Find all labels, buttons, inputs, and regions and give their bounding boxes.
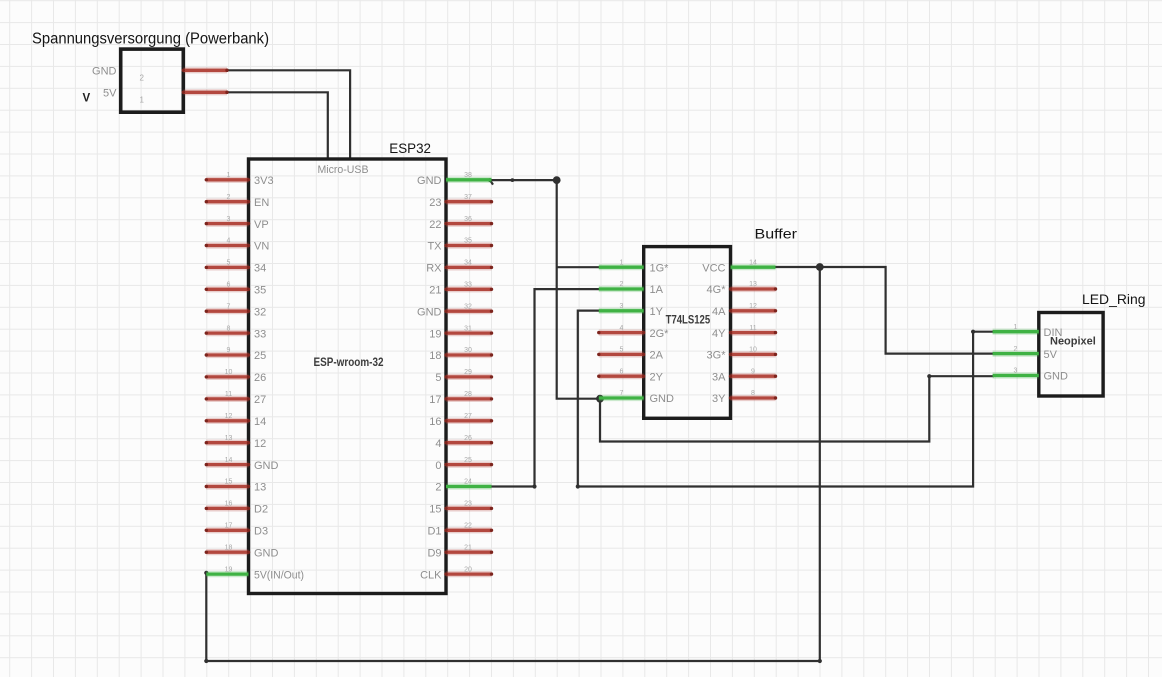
svg-text:GND: GND <box>254 547 279 559</box>
svg-text:6: 6 <box>620 368 624 375</box>
svg-text:RX: RX <box>426 263 442 275</box>
wire powerbank 5V to ESP32 Micro-USB <box>227 92 328 159</box>
svg-text:25: 25 <box>464 457 472 464</box>
wire net GND: buffer GND(7) to LED ring GND <box>600 376 994 441</box>
svg-text:4A: 4A <box>712 306 726 318</box>
svg-text:Micro-USB: Micro-USB <box>318 164 369 176</box>
svg-text:14: 14 <box>254 416 266 428</box>
svg-text:19: 19 <box>429 328 441 340</box>
svg-text:13: 13 <box>254 482 266 494</box>
ESP32 pin 15 13 <box>205 479 267 494</box>
svg-text:20: 20 <box>464 566 472 573</box>
svg-text:2: 2 <box>620 281 624 288</box>
svg-text:VP: VP <box>254 219 269 231</box>
svg-text:3: 3 <box>227 216 231 223</box>
svg-text:17: 17 <box>429 394 441 406</box>
svg-text:T74LS125: T74LS125 <box>666 312 711 326</box>
ESP32 pin 23 15 <box>429 501 493 516</box>
svg-text:11: 11 <box>749 325 756 332</box>
svg-text:4: 4 <box>620 325 624 332</box>
svg-text:GND: GND <box>417 175 442 187</box>
ESP32 pin 29 5 <box>435 369 493 384</box>
svg-text:18: 18 <box>225 544 233 551</box>
svg-text:33: 33 <box>254 328 266 340</box>
svg-text:21: 21 <box>464 544 472 551</box>
svg-text:16: 16 <box>225 501 233 508</box>
svg-text:29: 29 <box>464 369 472 376</box>
svg-text:0: 0 <box>435 460 441 472</box>
powerbank pin 2 GND <box>92 66 229 83</box>
svg-text:5V: 5V <box>103 88 117 100</box>
powerbank pin 1 5V <box>103 88 229 105</box>
svg-text:32: 32 <box>254 306 266 318</box>
svg-text:LED_Ring: LED_Ring <box>1082 292 1146 307</box>
bendpoint wire 1Y corner <box>576 484 580 488</box>
svg-text:2: 2 <box>1014 346 1018 353</box>
svg-text:34: 34 <box>464 260 472 267</box>
svg-text:GND: GND <box>92 66 117 78</box>
wire net out: buffer 1Y(3) to LED ring DIN <box>578 311 994 487</box>
svg-text:5V(IN/Out): 5V(IN/Out) <box>254 569 304 581</box>
svg-text:2G*: 2G* <box>650 328 670 340</box>
ESP32 pin 34 RX <box>426 260 493 275</box>
svg-text:TX: TX <box>427 241 442 253</box>
buffer pin 1 1G* <box>599 259 669 274</box>
wire net 5V: VCC junction down and to ESP32 5V(IN/Out) pin 19 <box>206 267 820 661</box>
LED ring pin 3 GND <box>993 368 1068 383</box>
svg-text:Spannungsversorgung (Powerbank: Spannungsversorgung (Powerbank) <box>32 31 269 48</box>
ESP32 pin 25 0 <box>435 457 493 472</box>
svg-text:14: 14 <box>749 259 757 266</box>
svg-text:4: 4 <box>227 238 231 245</box>
LED ring body <box>1039 313 1103 397</box>
powerbank body <box>121 49 184 112</box>
junction node GND at buffer GND pin 7 <box>596 395 604 403</box>
svg-text:1G*: 1G* <box>650 262 670 274</box>
ESP32 pin 14 GND <box>205 457 279 472</box>
svg-text:35: 35 <box>254 285 266 297</box>
svg-text:DIN: DIN <box>1044 327 1063 339</box>
svg-text:1Y: 1Y <box>650 306 664 318</box>
svg-text:12: 12 <box>225 413 233 420</box>
ESP32 pin 13 12 <box>205 435 267 450</box>
buffer pin 2 1A <box>599 281 664 296</box>
svg-text:VN: VN <box>254 241 269 253</box>
ESP32 pin 35 TX <box>427 238 493 253</box>
svg-text:31: 31 <box>464 325 472 332</box>
ESP32 pin 33 21 <box>429 282 493 297</box>
svg-text:15: 15 <box>225 479 233 486</box>
svg-text:9: 9 <box>751 368 755 375</box>
ESP32 pin 31 19 <box>429 325 493 340</box>
svg-text:5V: 5V <box>1044 349 1058 361</box>
svg-text:35: 35 <box>464 238 472 245</box>
svg-text:GND: GND <box>417 306 442 318</box>
buffer pin 5 2A <box>597 347 664 362</box>
junction node 5V at buffer VCC wire <box>816 263 824 271</box>
LED ring pin 1 DIN <box>993 324 1063 339</box>
svg-text:D1: D1 <box>427 526 441 538</box>
ESP32 pin 28 17 <box>429 391 493 406</box>
buffer pin 12 4A <box>712 303 777 318</box>
svg-text:27: 27 <box>464 413 472 420</box>
svg-text:8: 8 <box>227 325 231 332</box>
svg-text:26: 26 <box>464 435 472 442</box>
svg-text:37: 37 <box>464 194 472 201</box>
svg-text:14: 14 <box>225 457 233 464</box>
svg-text:ESP-wroom-32: ESP-wroom-32 <box>314 355 384 369</box>
ESP32 pin 4 VN <box>205 238 270 253</box>
wire end at powerbank GND pin <box>225 69 228 72</box>
ESP32 pin 18 GND <box>205 544 279 559</box>
svg-text:24: 24 <box>464 479 472 486</box>
svg-text:3: 3 <box>1014 368 1018 375</box>
svg-text:V: V <box>83 93 91 105</box>
svg-text:2A: 2A <box>650 350 664 362</box>
ESP32 pin 24 2 <box>435 479 491 494</box>
svg-text:34: 34 <box>254 263 266 275</box>
svg-text:2: 2 <box>140 74 145 83</box>
svg-text:Buffer: Buffer <box>755 227 798 242</box>
svg-text:8: 8 <box>751 390 755 397</box>
ESP32 pin 19 5V(IN/Out) <box>206 566 304 581</box>
wire net GND: ESP32 GND(38) to buffer 1G*, buffer GND(7) <box>490 180 600 399</box>
bendpoint on GND wire <box>511 178 515 182</box>
wire end at powerbank 5V pin <box>225 91 228 94</box>
ESP32 pin 12 14 <box>205 413 267 428</box>
svg-text:CLK: CLK <box>420 569 442 581</box>
svg-text:7: 7 <box>227 303 231 310</box>
buffer pin 14 VCC <box>702 259 775 274</box>
svg-text:6: 6 <box>227 282 231 289</box>
ESP32 pin 26 4 <box>435 435 493 450</box>
bendpoint wire DIN corner <box>971 330 975 334</box>
svg-text:2: 2 <box>227 194 231 201</box>
svg-text:GND: GND <box>254 460 279 472</box>
ESP32 pin 20 CLK <box>420 566 493 581</box>
ESP32 pin 5 34 <box>205 260 267 275</box>
svg-text:28: 28 <box>464 391 472 398</box>
svg-text:2: 2 <box>435 482 441 494</box>
ESP32 pin 37 23 <box>429 194 493 209</box>
svg-text:12: 12 <box>254 438 266 450</box>
ESP32 pin 30 18 <box>429 347 493 362</box>
svg-text:4: 4 <box>435 438 441 450</box>
svg-text:2Y: 2Y <box>650 371 664 383</box>
ESP32 pin 11 27 <box>205 391 267 406</box>
svg-text:26: 26 <box>254 372 266 384</box>
ESP32 pin 6 35 <box>205 282 267 297</box>
ESP32 pin 36 22 <box>429 216 493 231</box>
wire powerbank GND to ESP32 Micro-USB <box>227 70 350 159</box>
svg-text:1A: 1A <box>650 284 664 296</box>
svg-text:3: 3 <box>620 303 624 310</box>
svg-text:5: 5 <box>227 260 231 267</box>
svg-text:VCC: VCC <box>702 262 725 274</box>
svg-text:GND: GND <box>1044 371 1069 383</box>
svg-text:4G*: 4G* <box>707 284 727 296</box>
svg-text:23: 23 <box>464 501 472 508</box>
bendpoint bottom 5V wire right <box>818 659 822 663</box>
ESP32 pin 9 25 <box>205 347 267 362</box>
bendpoint wire LED GND corner <box>927 374 931 378</box>
svg-text:12: 12 <box>749 303 757 310</box>
buffer pin 13 4G* <box>707 281 778 296</box>
svg-text:25: 25 <box>254 350 266 362</box>
svg-text:22: 22 <box>464 523 472 530</box>
ESP32 pin 38 GND <box>417 172 491 187</box>
svg-text:18: 18 <box>429 350 441 362</box>
svg-text:23: 23 <box>429 197 441 209</box>
svg-text:3G*: 3G* <box>707 350 727 362</box>
svg-text:5: 5 <box>620 347 624 354</box>
svg-text:1: 1 <box>620 259 624 266</box>
buffer pin 8 3Y <box>712 390 777 405</box>
svg-text:36: 36 <box>464 216 472 223</box>
wire net GND branch to buffer 1G* pin 1 <box>557 266 600 268</box>
junction node GND at ESP32 GND wire <box>553 176 561 184</box>
svg-text:3Y: 3Y <box>712 393 726 405</box>
wire end at ESP32 GND pin <box>488 178 492 182</box>
LED ring pin 2 5V <box>993 346 1058 361</box>
bendpoint bottom 5V wire left <box>204 659 208 663</box>
svg-text:9: 9 <box>227 347 231 354</box>
ESP32 pin 32 GND <box>417 303 493 318</box>
ESP32 pin 27 16 <box>429 413 493 428</box>
ESP32 pin 10 26 <box>205 369 267 384</box>
svg-text:3V3: 3V3 <box>254 175 274 187</box>
svg-text:32: 32 <box>464 303 472 310</box>
svg-text:33: 33 <box>464 282 472 289</box>
ESP32 pin 7 32 <box>205 303 267 318</box>
svg-text:D2: D2 <box>254 504 268 516</box>
svg-text:3A: 3A <box>712 371 726 383</box>
bendpoint at ESP32 pin 19 <box>204 571 208 575</box>
svg-text:GND: GND <box>650 393 675 405</box>
svg-text:11: 11 <box>225 391 232 398</box>
svg-text:ESP32: ESP32 <box>389 141 431 156</box>
svg-text:7: 7 <box>620 390 624 397</box>
ESP32 pin 3 VP <box>205 216 269 231</box>
buffer pin 11 4Y <box>712 325 777 340</box>
svg-text:1: 1 <box>140 96 145 105</box>
buffer U1 body T74LS125 <box>644 247 731 419</box>
svg-text:D9: D9 <box>427 547 441 559</box>
svg-text:16: 16 <box>429 416 441 428</box>
ESP32 pin 21 D9 <box>427 544 493 559</box>
ESP32 pin 8 33 <box>205 325 267 340</box>
svg-text:D3: D3 <box>254 526 268 538</box>
svg-text:5: 5 <box>435 372 441 384</box>
svg-text:1: 1 <box>1014 324 1018 331</box>
ESP32 pin 17 D3 <box>205 523 268 538</box>
svg-text:13: 13 <box>225 435 233 442</box>
ESP32 pin 2 EN <box>205 194 270 209</box>
buffer pin 6 2Y <box>597 368 664 383</box>
svg-text:22: 22 <box>429 219 441 231</box>
wire net 5V: buffer VCC(14) to LED ring 5V <box>775 267 994 354</box>
svg-text:19: 19 <box>225 566 233 573</box>
wire GND stub at ESP32 GND pin end <box>490 180 493 185</box>
svg-text:30: 30 <box>464 347 472 354</box>
svg-text:21: 21 <box>429 285 441 297</box>
svg-text:15: 15 <box>429 504 441 516</box>
wire net data: ESP32 2(24) to buffer 1A(2) <box>490 289 600 486</box>
svg-text:17: 17 <box>225 523 233 530</box>
svg-text:10: 10 <box>749 347 757 354</box>
svg-text:38: 38 <box>464 172 472 179</box>
svg-text:10: 10 <box>225 369 233 376</box>
bendpoint wire ESP32 pin24 corner <box>532 484 536 488</box>
svg-text:1: 1 <box>227 172 231 179</box>
svg-text:27: 27 <box>254 394 266 406</box>
ESP32 body <box>249 159 447 594</box>
ESP32 pin 16 D2 <box>205 501 268 516</box>
svg-text:13: 13 <box>749 281 757 288</box>
svg-text:4Y: 4Y <box>712 328 726 340</box>
buffer pin 4 2G* <box>597 325 669 340</box>
ESP32 pin 22 D1 <box>427 523 493 538</box>
ESP32 pin 1 3V3 <box>205 172 274 187</box>
svg-text:EN: EN <box>254 197 269 209</box>
buffer pin 7 GND <box>599 390 674 405</box>
buffer pin 9 3A <box>712 368 777 383</box>
buffer pin 3 1Y <box>599 303 664 318</box>
buffer pin 10 3G* <box>707 347 778 362</box>
